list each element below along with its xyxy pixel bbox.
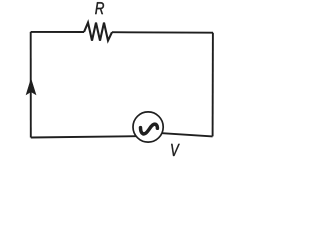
wire top-left segment (31, 31, 84, 33)
label V (171, 144, 180, 156)
wire right vertical (212, 33, 214, 137)
wire bottom-right segment (162, 133, 212, 136)
label R (95, 2, 104, 14)
wire bottom-left segment (31, 136, 137, 137)
wire top-right segment (112, 31, 213, 34)
wire left vertical (30, 32, 32, 138)
current direction arrow (26, 79, 36, 95)
AC source V (133, 112, 163, 142)
sine symbol inside source (141, 124, 158, 134)
resistor R1 (84, 23, 112, 41)
